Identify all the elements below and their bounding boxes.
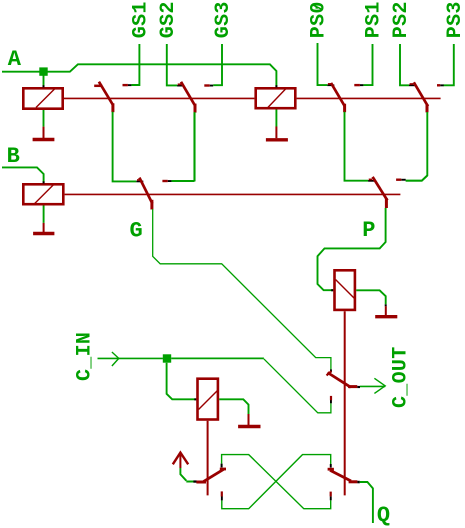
gate contact S6 (396, 179, 406, 181)
wire C_IN down to coil (167, 363, 195, 400)
wire coil P bottom red (344, 311, 346, 495)
wire S3 output (345, 112, 369, 181)
wire arrow to S7 (180, 468, 193, 482)
ground coil C_IN (238, 414, 260, 427)
switch blade S5 row B (136, 178, 152, 210)
wire C_IN with arrow (98, 352, 163, 366)
svg-text:P: P (362, 218, 375, 243)
gate contact PS1 (354, 84, 363, 86)
wire PS2 (400, 44, 409, 85)
wire X top left (222, 455, 331, 509)
switch blade S7 (193, 469, 226, 483)
svg-text:G: G (130, 219, 143, 244)
wire PS1 (363, 44, 372, 85)
wire coil A bottom (43, 110, 45, 127)
svg-text:B: B (7, 144, 20, 169)
wire coil P right (356, 290, 386, 304)
ground coil mid (266, 127, 288, 140)
svg-text:C_OUT: C_OUT (390, 346, 413, 408)
ground coil P (375, 306, 397, 317)
switch blade S3 (327, 83, 345, 112)
svg-text:PS0: PS0 (308, 1, 331, 38)
svg-text:GS2: GS2 (157, 1, 180, 38)
svg-text:GS3: GS3 (212, 1, 235, 38)
wire S8 to Q (360, 482, 373, 523)
wire GS3 (213, 44, 222, 85)
slash in zero PS0 (312, 4, 322, 9)
switch blade S6 row B (368, 177, 387, 208)
switch blade S8 (328, 464, 358, 482)
wire coil C_IN right (219, 399, 248, 414)
net row A (63, 97, 441, 99)
gate contact GS1 (123, 84, 132, 86)
wire B (2, 167, 44, 182)
ground coil B (33, 223, 54, 234)
wire C_OUT with arrow (360, 378, 385, 393)
coil C_IN (198, 379, 218, 420)
net row B (65, 193, 401, 195)
svg-text:Q: Q (377, 503, 390, 528)
wire GS2 (167, 44, 177, 85)
ground coil A (33, 127, 55, 140)
gate contact S9 (330, 396, 332, 403)
svg-text:C_IN: C_IN (73, 332, 96, 381)
switch blade S2 (177, 82, 195, 113)
wire S1 output (113, 112, 137, 182)
node C_IN junction (163, 354, 171, 362)
svg-text:A: A (8, 47, 22, 72)
wire net G (153, 209, 331, 369)
svg-text:PS1: PS1 (363, 1, 386, 38)
coil B (23, 181, 63, 204)
wire X top right (222, 455, 331, 509)
svg-text:PS3: PS3 (444, 1, 465, 38)
wire coil B bottom (43, 206, 45, 223)
wire PS3 (443, 44, 454, 85)
wire C_IN diagonal (264, 359, 331, 413)
wire S4 output (406, 112, 428, 181)
svg-text:GS1: GS1 (129, 1, 152, 38)
wire A (2, 64, 276, 86)
wire gate S6 (406, 176, 428, 181)
wire A to coil (43, 76, 45, 87)
node A junction (39, 67, 47, 75)
wire PS0 (318, 43, 328, 85)
svg-text:PS2: PS2 (390, 1, 413, 38)
gate contact GS3 (204, 85, 213, 87)
switch blade S9 C_OUT (327, 369, 358, 387)
wire coil C_IN bottom red (207, 421, 209, 496)
gate contact PS3 (437, 84, 444, 86)
wire C_IN right (171, 357, 264, 359)
arrow Q input (173, 453, 188, 468)
wire coil mid bottom (275, 110, 277, 127)
wire S2 output (194, 112, 196, 181)
switch blade S1 (94, 82, 113, 113)
coil P (335, 270, 356, 310)
gate contact S5 (162, 180, 171, 182)
coil A (23, 85, 62, 109)
contact X bottom right (330, 492, 332, 501)
wire net P to coil P (318, 208, 386, 290)
wire GS1 (131, 44, 139, 85)
wire gate S5 (172, 112, 195, 181)
coil row A mid (256, 85, 296, 108)
switch blade S4 (409, 82, 428, 112)
contact X bottom left (221, 491, 223, 500)
